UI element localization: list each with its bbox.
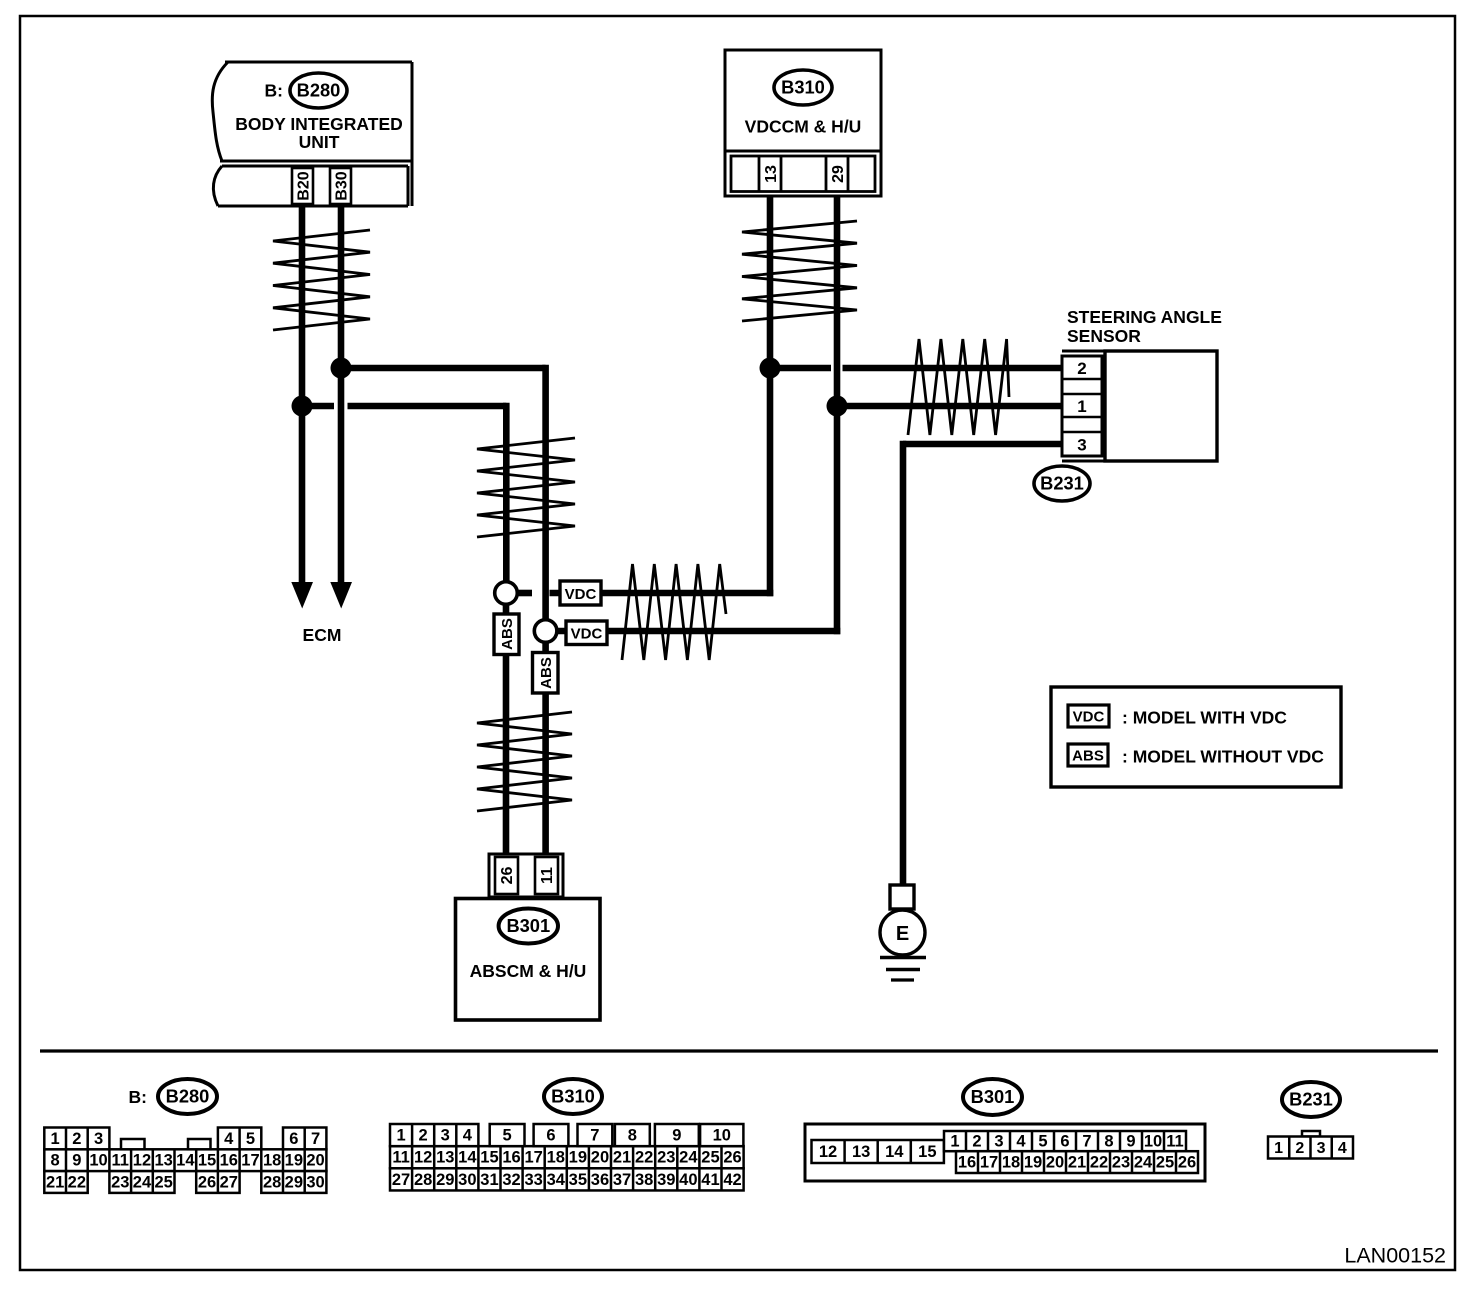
- svg-text:14: 14: [458, 1149, 477, 1167]
- svg-text:26: 26: [499, 867, 516, 885]
- label VDC (lower wire): [566, 621, 607, 645]
- svg-text:11: 11: [392, 1149, 409, 1167]
- pin 29 of B310: [825, 156, 828, 192]
- svg-text:9: 9: [72, 1152, 81, 1170]
- twisted-pair marks on B280 wires: [273, 230, 370, 330]
- wire node circle 1 down to B301 pin 26: [503, 605, 510, 858]
- bottom label B301: [963, 1079, 1022, 1115]
- wire node circle 2 down to B301 pin 11: [542, 643, 549, 858]
- svg-text:42: 42: [723, 1171, 741, 1189]
- svg-text:: MODEL WITH VDC: : MODEL WITH VDC: [1122, 708, 1287, 728]
- wire junction 13 to sensor pin 2 (gap at 29 crossing): [770, 365, 831, 372]
- pin 3 of sensor: [1062, 431, 1102, 434]
- svg-text:40: 40: [679, 1171, 697, 1189]
- twisted-pair marks on B310 wires: [742, 221, 857, 321]
- wire from B20 junction right (gap at B30 crossing) then down to node circle 1: [302, 403, 334, 410]
- svg-text:27: 27: [220, 1174, 238, 1192]
- node circle (VDC/ABS split lower): [534, 620, 557, 643]
- svg-text:11: 11: [1166, 1133, 1183, 1151]
- connector B280 pinout row 1 (pins 4-5): [218, 1128, 261, 1150]
- svg-text:22: 22: [1090, 1154, 1108, 1172]
- svg-text:1: 1: [396, 1127, 405, 1145]
- svg-text:10: 10: [1144, 1133, 1162, 1151]
- pin 26 of B301: [495, 857, 518, 894]
- connector B310 pinout row 1 (pin 9): [655, 1124, 699, 1146]
- svg-text:16: 16: [502, 1149, 520, 1167]
- svg-text:14: 14: [176, 1152, 195, 1170]
- svg-text:21: 21: [1068, 1154, 1086, 1172]
- svg-text:17: 17: [524, 1149, 542, 1167]
- connector B310 pinout row 1 (pin 8): [615, 1124, 650, 1146]
- svg-text:3: 3: [1077, 436, 1086, 455]
- svg-text:VDC: VDC: [1073, 709, 1105, 726]
- svg-text:12: 12: [133, 1152, 151, 1170]
- svg-text:B20: B20: [296, 171, 313, 200]
- connector B301 outline: [805, 1124, 1205, 1181]
- wire sensor pin 3 to ground: [903, 441, 1062, 448]
- connector B310 pinout row 1 (pin 10): [700, 1124, 743, 1146]
- svg-text:B231: B231: [1040, 473, 1084, 494]
- svg-text:26: 26: [1178, 1154, 1196, 1172]
- svg-text:10: 10: [89, 1152, 107, 1170]
- svg-text:8: 8: [51, 1152, 60, 1170]
- svg-text:7: 7: [311, 1130, 320, 1148]
- svg-text:ABS: ABS: [538, 657, 555, 689]
- svg-text:18: 18: [263, 1152, 281, 1170]
- connector B301 pinout pins 1-11: [944, 1131, 1186, 1151]
- pin 1 of sensor: [1062, 393, 1102, 396]
- svg-text:25: 25: [154, 1174, 172, 1192]
- connector B280 pinout row 1 (pins 6-7): [283, 1128, 326, 1150]
- legend box: [1051, 687, 1341, 787]
- svg-text:36: 36: [591, 1171, 609, 1189]
- pin 11 of B301: [535, 857, 558, 894]
- connector B310 pinout row 3 (pins 27-42): [390, 1168, 744, 1190]
- svg-text:30: 30: [306, 1174, 324, 1192]
- svg-text:SENSOR: SENSOR: [1067, 326, 1141, 346]
- wire node circle 2 to VDC corner (lower): [557, 628, 841, 635]
- svg-text:13: 13: [154, 1152, 172, 1170]
- svg-text:14: 14: [885, 1143, 904, 1161]
- svg-text:2: 2: [72, 1130, 81, 1148]
- svg-text:15: 15: [918, 1143, 936, 1161]
- svg-text:16: 16: [958, 1154, 976, 1172]
- pin B20 of B280: [292, 168, 313, 204]
- svg-text:UNIT: UNIT: [299, 132, 340, 152]
- arrow to ECM (B30): [330, 582, 352, 609]
- svg-text:VDC: VDC: [571, 626, 603, 643]
- wire B310 pin 13 down to VDC line: [767, 196, 774, 596]
- twisted-pair marks on B301 wires: [477, 712, 572, 811]
- svg-text:32: 32: [502, 1171, 520, 1189]
- svg-text:B:: B:: [129, 1087, 147, 1107]
- legend ABS symbol: [1068, 744, 1108, 766]
- svg-text:1: 1: [51, 1130, 60, 1148]
- svg-text:31: 31: [480, 1171, 498, 1189]
- svg-text:27: 27: [392, 1171, 410, 1189]
- pin 2 of sensor: [1062, 378, 1102, 381]
- svg-text:24: 24: [133, 1174, 152, 1192]
- connector strip of B301: [489, 854, 563, 897]
- ground terminal square: [890, 885, 914, 909]
- svg-text:19: 19: [1024, 1154, 1042, 1172]
- legend VDC symbol: [1068, 705, 1109, 727]
- svg-text:18: 18: [1002, 1154, 1020, 1172]
- svg-text:6: 6: [289, 1130, 298, 1148]
- svg-text:ABSCM & H/U: ABSCM & H/U: [470, 961, 587, 981]
- svg-text:22: 22: [635, 1149, 653, 1167]
- connector B280 key tab 2: [188, 1139, 211, 1149]
- svg-text:35: 35: [569, 1171, 587, 1189]
- bottom label B310: [544, 1079, 602, 1114]
- bottom label B231: [1282, 1082, 1340, 1117]
- svg-text:2: 2: [419, 1127, 428, 1145]
- svg-text:4: 4: [1016, 1133, 1026, 1151]
- connector box B310 VDCCM & H/U: [725, 50, 881, 196]
- svg-text:37: 37: [613, 1171, 631, 1189]
- svg-text:23: 23: [111, 1174, 129, 1192]
- svg-text:22: 22: [68, 1174, 86, 1192]
- svg-text:17: 17: [980, 1154, 998, 1172]
- svg-text:1: 1: [1274, 1140, 1283, 1157]
- svg-text:3: 3: [441, 1127, 450, 1145]
- svg-text:20: 20: [591, 1149, 609, 1167]
- svg-text:21: 21: [613, 1149, 631, 1167]
- connector B280 pinout row 3 (pins 21-22): [44, 1171, 87, 1193]
- junction dot on B20 wire: [292, 396, 313, 417]
- svg-text:23: 23: [1112, 1154, 1130, 1172]
- svg-text:13: 13: [852, 1143, 870, 1161]
- svg-text:4: 4: [1338, 1140, 1347, 1157]
- connector B231 pinout pins 1-4: [1268, 1137, 1353, 1159]
- svg-text:3: 3: [94, 1130, 103, 1148]
- node circle (VDC/ABS split upper): [495, 582, 518, 605]
- wire from B30 junction right then down to node circle 2: [341, 365, 546, 372]
- svg-text:6: 6: [1060, 1133, 1069, 1151]
- svg-text:4: 4: [463, 1127, 473, 1145]
- component box B301 ABSCM & H/U: [456, 899, 601, 1021]
- svg-text:11: 11: [539, 867, 556, 884]
- svg-text:LAN00152: LAN00152: [1344, 1244, 1446, 1268]
- svg-text:18: 18: [547, 1149, 565, 1167]
- connector B280 pinout row 3 (pins 28-30): [261, 1171, 326, 1193]
- connector B310 pinout row 1 (pin 7): [578, 1124, 613, 1146]
- svg-text:19: 19: [569, 1149, 587, 1167]
- arrow to ECM (B20): [291, 582, 313, 609]
- svg-text:30: 30: [458, 1171, 476, 1189]
- wire B280 pin B20 to ECM: [299, 206, 306, 583]
- svg-text:39: 39: [657, 1171, 675, 1189]
- svg-text:5: 5: [246, 1130, 255, 1148]
- svg-text:25: 25: [1156, 1154, 1174, 1172]
- svg-text:B301: B301: [971, 1086, 1015, 1107]
- label ABS (right wire): [533, 653, 559, 694]
- svg-text:B310: B310: [781, 77, 825, 98]
- svg-text:13: 13: [763, 165, 780, 183]
- svg-text:B30: B30: [334, 171, 351, 200]
- svg-text:15: 15: [198, 1152, 216, 1170]
- svg-text:26: 26: [198, 1174, 216, 1192]
- component steering angle sensor: [1062, 307, 1222, 461]
- label ABS (left wire): [494, 614, 519, 655]
- svg-text:8: 8: [1104, 1133, 1113, 1151]
- svg-text:ECM: ECM: [303, 625, 342, 645]
- connector B280 pinout row 1 (pins 1-3): [44, 1128, 109, 1150]
- svg-text:2: 2: [1295, 1140, 1304, 1157]
- svg-text:13: 13: [436, 1149, 454, 1167]
- connector B310 pinout row 1 (pins 1-4): [390, 1124, 478, 1146]
- connector label B231: [1034, 466, 1090, 501]
- svg-text:29: 29: [436, 1171, 454, 1189]
- svg-text:25: 25: [701, 1149, 719, 1167]
- wire B310 pin 29 down to lower VDC line: [834, 196, 841, 634]
- svg-text:8: 8: [628, 1127, 637, 1145]
- svg-text:5: 5: [503, 1127, 512, 1145]
- wire B280 pin B30 to ECM: [338, 206, 345, 583]
- svg-text:33: 33: [524, 1171, 542, 1189]
- svg-text:B280: B280: [297, 80, 341, 101]
- svg-text:B280: B280: [166, 1086, 210, 1107]
- junction dot on pin 13 wire: [760, 358, 781, 379]
- svg-text:20: 20: [306, 1152, 324, 1170]
- twisted-pair marks on VDC wires: [622, 564, 726, 660]
- connector B310 pinout row 1 (pin 5): [490, 1124, 525, 1146]
- twisted-pair marks on sensor wires: [908, 339, 1009, 435]
- svg-text:20: 20: [1046, 1154, 1064, 1172]
- svg-text:7: 7: [590, 1127, 599, 1145]
- connector B310 pinout row 2 (pins 11-26): [390, 1146, 744, 1168]
- svg-text:B310: B310: [551, 1086, 595, 1107]
- svg-text:38: 38: [635, 1171, 653, 1189]
- svg-text:29: 29: [285, 1174, 303, 1192]
- svg-text:12: 12: [819, 1143, 837, 1161]
- pin B30 of B280: [330, 168, 351, 204]
- svg-text:4: 4: [224, 1130, 234, 1148]
- connector B280 key tab 1: [121, 1139, 145, 1149]
- svg-text:2: 2: [972, 1133, 981, 1151]
- wire node circle 1 to VDC corner (upper): [518, 590, 533, 597]
- junction dot on pin 29 wire: [827, 396, 848, 417]
- svg-text:41: 41: [701, 1171, 719, 1189]
- svg-text:23: 23: [657, 1149, 675, 1167]
- svg-text:29: 29: [830, 165, 847, 183]
- svg-text:9: 9: [1126, 1133, 1135, 1151]
- svg-text:24: 24: [679, 1149, 698, 1167]
- connector B301 pinout pins 12-15: [812, 1140, 944, 1163]
- svg-text:STEERING ANGLE: STEERING ANGLE: [1067, 307, 1222, 327]
- label VDC (upper wire): [560, 581, 601, 605]
- svg-text:B301: B301: [506, 915, 550, 936]
- svg-text:3: 3: [994, 1133, 1003, 1151]
- connector B280 pinout row 2 (pins 8-20): [44, 1149, 326, 1171]
- svg-text:5: 5: [1038, 1133, 1047, 1151]
- svg-text:21: 21: [46, 1174, 64, 1192]
- svg-text:28: 28: [263, 1174, 281, 1192]
- connector B310 pinout row 1 (pin 6): [534, 1124, 569, 1146]
- svg-text:11: 11: [112, 1152, 129, 1170]
- svg-text:34: 34: [547, 1171, 566, 1189]
- separator line: [40, 1049, 1438, 1052]
- ground circle E: [880, 910, 925, 955]
- twisted-pair marks on middle vertical pair: [477, 438, 575, 537]
- connector B301 pinout pins 16-26: [956, 1151, 1198, 1173]
- junction dot on B30 wire: [331, 358, 352, 379]
- svg-text:1: 1: [950, 1133, 959, 1151]
- svg-text:B:: B:: [265, 81, 283, 101]
- svg-text:15: 15: [480, 1149, 498, 1167]
- svg-text:6: 6: [546, 1127, 555, 1145]
- svg-text:B231: B231: [1289, 1089, 1333, 1110]
- svg-text:7: 7: [1082, 1133, 1091, 1151]
- svg-text:26: 26: [723, 1149, 741, 1167]
- svg-text:2: 2: [1077, 359, 1086, 378]
- svg-text:19: 19: [285, 1152, 303, 1170]
- svg-text:VDCCM & H/U: VDCCM & H/U: [745, 117, 862, 137]
- wire junction 29 to sensor pin 1: [837, 403, 1062, 410]
- svg-text:28: 28: [414, 1171, 432, 1189]
- svg-text:1: 1: [1077, 397, 1086, 416]
- svg-text:9: 9: [672, 1127, 681, 1145]
- connector B280 pinout row 3 (pins 23-25): [109, 1171, 174, 1193]
- connector B280 pinout row 3 (pins 26-27): [196, 1171, 239, 1193]
- svg-text:3: 3: [1317, 1140, 1326, 1157]
- svg-text:17: 17: [241, 1152, 259, 1170]
- connector box B280 BODY INTEGRATED UNIT: [212, 62, 412, 206]
- svg-text:12: 12: [414, 1149, 432, 1167]
- svg-text:: MODEL WITHOUT VDC: : MODEL WITHOUT VDC: [1122, 747, 1324, 767]
- svg-text:BODY INTEGRATED: BODY INTEGRATED: [235, 114, 403, 134]
- svg-text:E: E: [896, 923, 909, 945]
- svg-text:16: 16: [220, 1152, 238, 1170]
- svg-text:VDC: VDC: [565, 586, 597, 603]
- ground bars: [880, 956, 926, 960]
- connector B231 key tab: [1302, 1131, 1320, 1137]
- pin 13 of B310: [758, 156, 761, 192]
- svg-text:24: 24: [1134, 1154, 1153, 1172]
- svg-text:10: 10: [713, 1127, 731, 1145]
- svg-text:ABS: ABS: [1072, 748, 1104, 765]
- svg-text:ABS: ABS: [499, 618, 516, 650]
